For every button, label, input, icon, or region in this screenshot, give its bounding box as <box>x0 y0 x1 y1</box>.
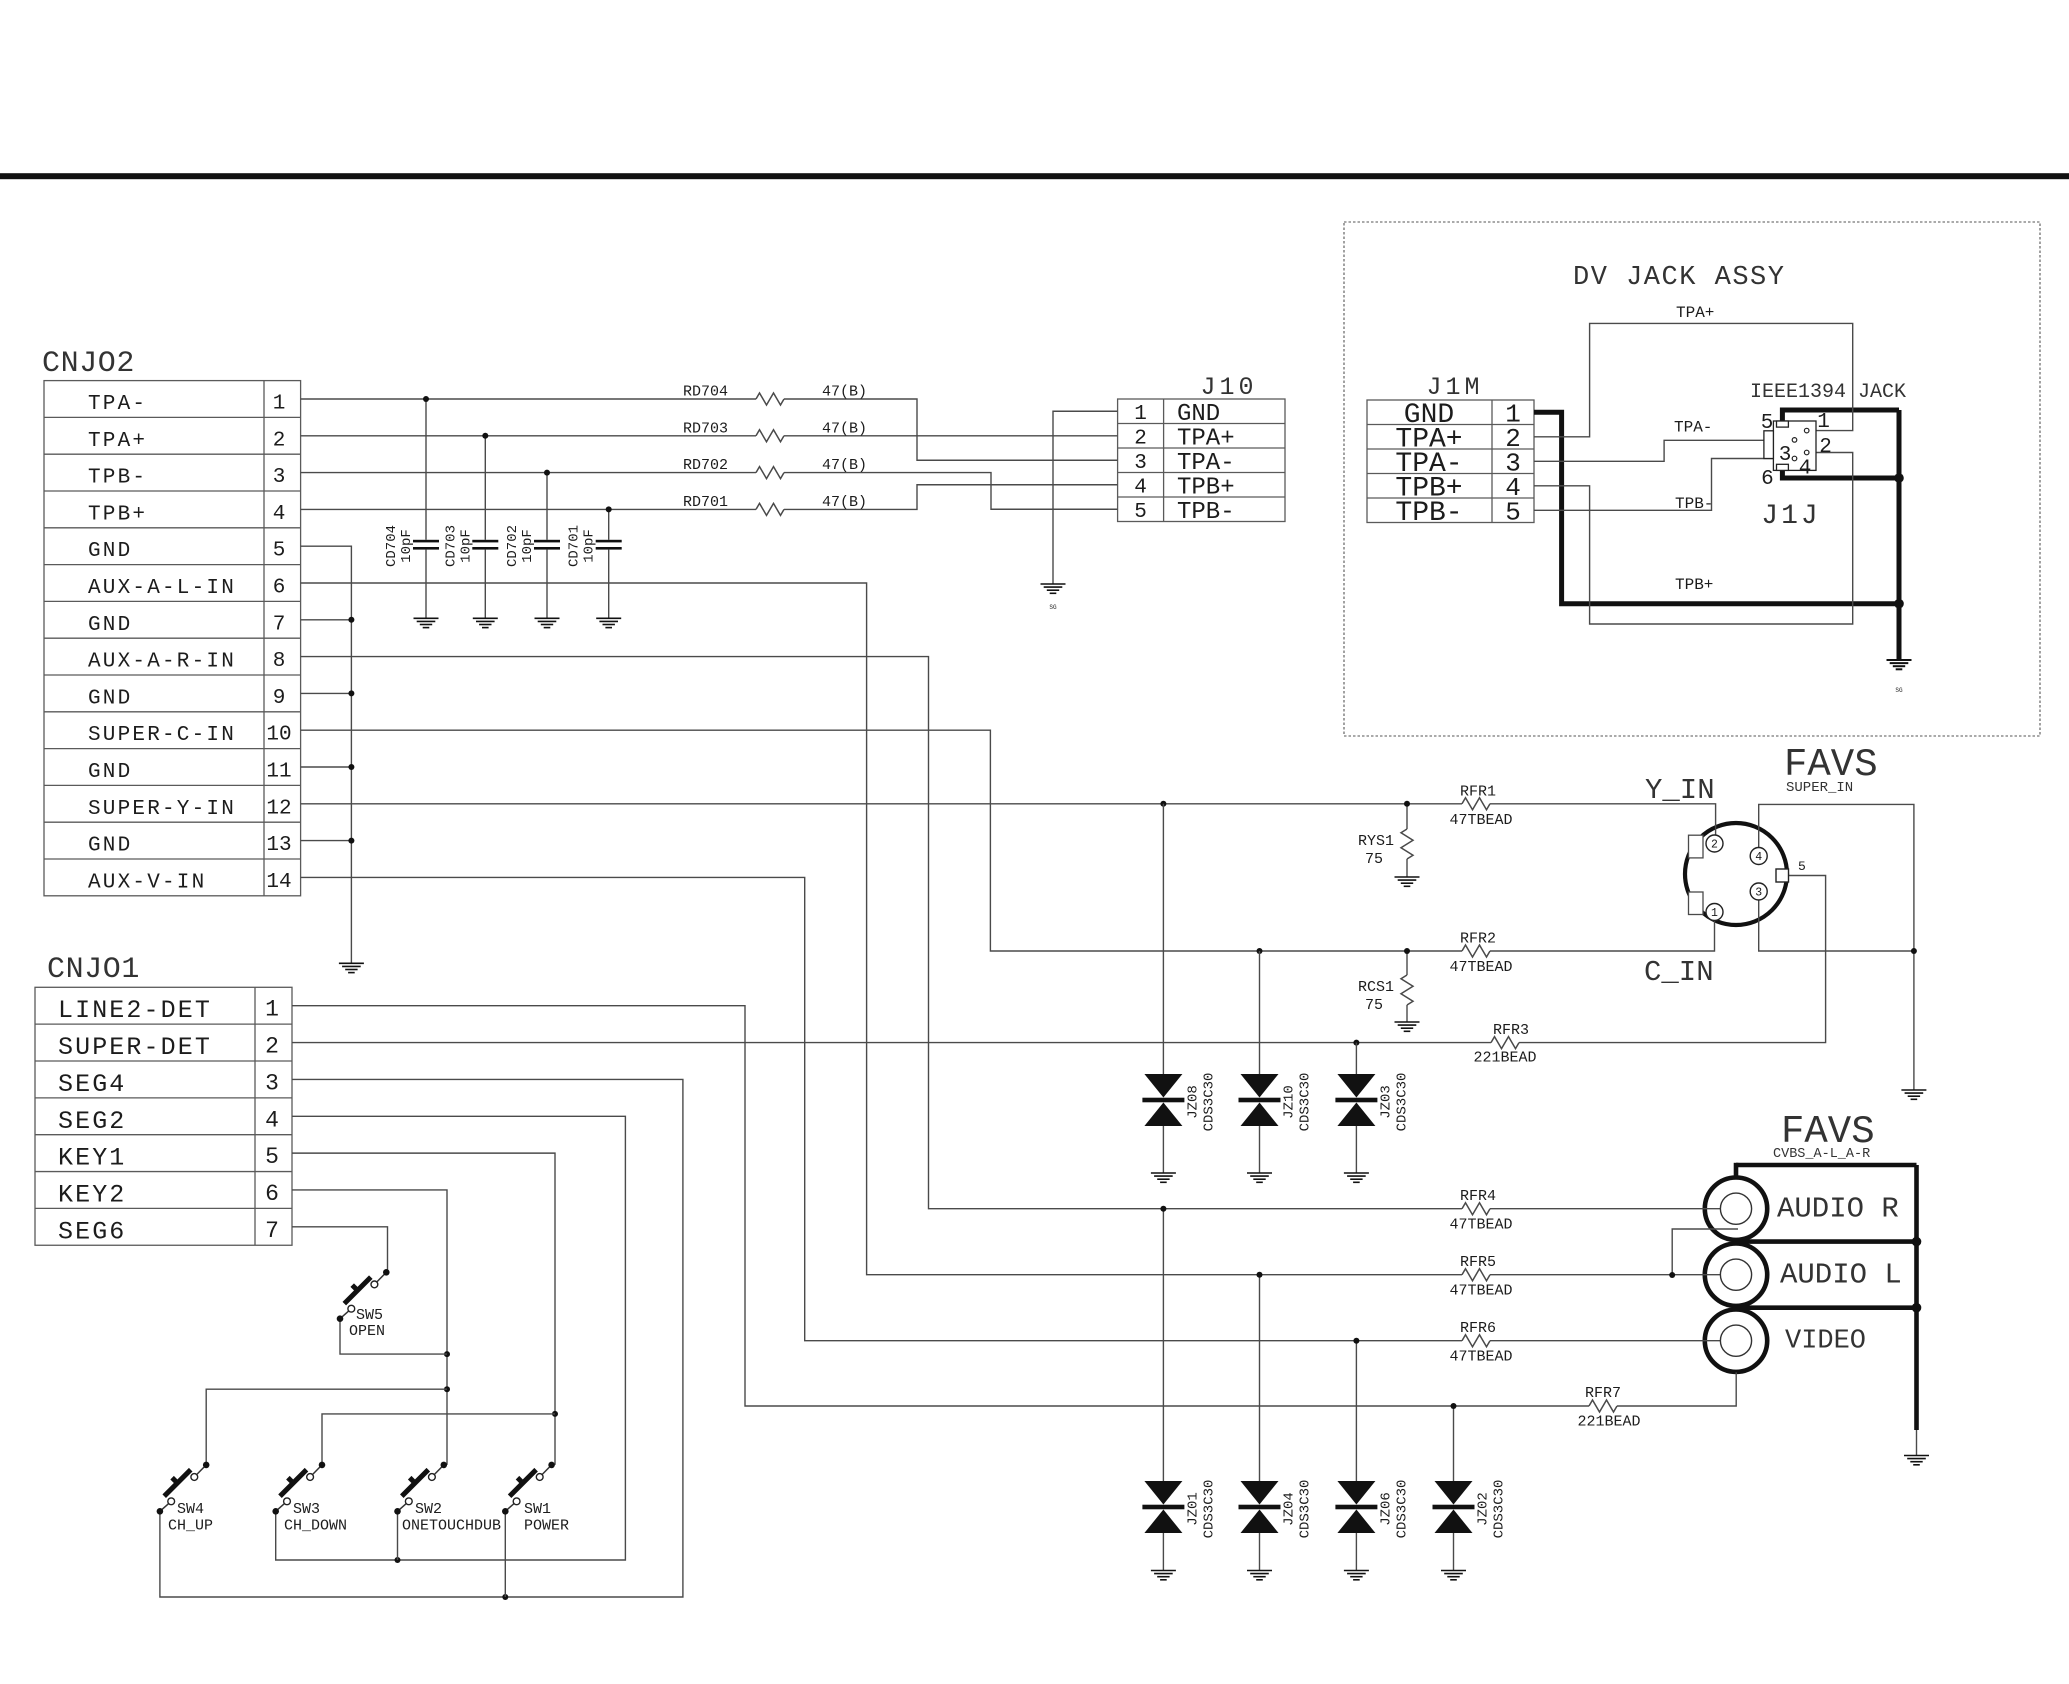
svg-text:4: 4 <box>1755 851 1762 864</box>
svg-text:CVBS_A-L_A-R: CVBS_A-L_A-R <box>1773 1147 1870 1162</box>
svg-text:SUPER-C-IN: SUPER-C-IN <box>88 724 236 747</box>
svg-text:GND: GND <box>1177 401 1220 428</box>
svg-text:J1M: J1M <box>1426 373 1483 402</box>
svg-text:CH_DOWN: CH_DOWN <box>284 1518 347 1535</box>
svg-text:13: 13 <box>266 834 291 857</box>
svg-text:TPB-: TPB- <box>88 467 147 490</box>
svg-text:TPB-: TPB- <box>1395 498 1462 529</box>
svg-text:VIDEO: VIDEO <box>1785 1327 1866 1357</box>
svg-text:AUX-V-IN: AUX-V-IN <box>88 871 206 894</box>
svg-text:1: 1 <box>273 393 286 416</box>
svg-text:RFR4: RFR4 <box>1460 1188 1496 1205</box>
svg-text:JZ10: JZ10 <box>1282 1085 1298 1119</box>
svg-text:TPA-: TPA- <box>1177 450 1235 477</box>
svg-text:KEY1: KEY1 <box>58 1144 126 1173</box>
svg-text:4: 4 <box>273 503 286 526</box>
svg-text:5: 5 <box>1505 497 1521 527</box>
svg-text:47(B): 47(B) <box>822 420 867 437</box>
svg-text:CD703: CD703 <box>443 525 459 567</box>
svg-text:RD704: RD704 <box>683 384 728 401</box>
svg-text:1: 1 <box>265 997 279 1023</box>
svg-text:5: 5 <box>1134 501 1147 524</box>
svg-text:RD701: RD701 <box>683 494 728 511</box>
svg-text:RYS1: RYS1 <box>1358 833 1394 850</box>
svg-text:CD702: CD702 <box>505 525 521 567</box>
svg-text:2: 2 <box>1134 428 1147 451</box>
svg-text:SUPER-DET: SUPER-DET <box>58 1033 212 1062</box>
svg-text:5: 5 <box>1761 412 1774 435</box>
svg-text:OPEN: OPEN <box>349 1323 385 1340</box>
svg-text:TPA+: TPA+ <box>1177 426 1235 453</box>
svg-text:47TBEAD: 47TBEAD <box>1449 1217 1512 1234</box>
svg-text:SEG4: SEG4 <box>58 1070 126 1099</box>
svg-text:Y_IN: Y_IN <box>1645 774 1715 807</box>
svg-text:IEEE1394 JACK: IEEE1394 JACK <box>1750 381 1906 404</box>
svg-text:SUPER-Y-IN: SUPER-Y-IN <box>88 798 236 821</box>
svg-text:11: 11 <box>266 761 291 784</box>
svg-text:5: 5 <box>1798 859 1806 874</box>
svg-text:GND: GND <box>88 835 132 858</box>
svg-text:JZ03: JZ03 <box>1378 1085 1394 1119</box>
svg-text:SW5: SW5 <box>356 1307 383 1324</box>
svg-text:47(B): 47(B) <box>822 457 867 474</box>
svg-text:TPA+: TPA+ <box>1676 304 1714 322</box>
svg-text:CNJO1: CNJO1 <box>47 953 140 987</box>
svg-text:TPA-: TPA- <box>1674 419 1712 437</box>
svg-text:1: 1 <box>1817 411 1830 434</box>
svg-text:SEG6: SEG6 <box>58 1217 126 1246</box>
svg-text:GND: GND <box>88 540 132 563</box>
svg-text:POWER: POWER <box>524 1518 569 1535</box>
svg-text:AUDIO L: AUDIO L <box>1780 1259 1902 1292</box>
svg-text:CDS3C30: CDS3C30 <box>1492 1480 1508 1539</box>
svg-text:TPB-: TPB- <box>1177 499 1235 526</box>
svg-text:47(B): 47(B) <box>822 384 867 401</box>
svg-text:CDS3C30: CDS3C30 <box>1298 1073 1314 1132</box>
svg-text:SG: SG <box>1895 687 1903 694</box>
svg-text:2: 2 <box>1711 839 1718 852</box>
svg-text:10pF: 10pF <box>582 529 598 563</box>
svg-text:4: 4 <box>1134 477 1147 500</box>
svg-text:RD703: RD703 <box>683 420 728 437</box>
svg-text:3: 3 <box>1755 887 1762 900</box>
svg-text:SW1: SW1 <box>524 1501 551 1518</box>
svg-text:47TBEAD: 47TBEAD <box>1449 959 1512 976</box>
svg-text:47TBEAD: 47TBEAD <box>1449 1283 1512 1300</box>
svg-text:SEG2: SEG2 <box>58 1107 126 1136</box>
svg-text:221BEAD: 221BEAD <box>1577 1414 1640 1431</box>
svg-text:75: 75 <box>1365 997 1383 1014</box>
svg-text:6: 6 <box>1761 468 1774 491</box>
svg-text:3: 3 <box>265 1070 279 1096</box>
svg-text:75: 75 <box>1365 851 1383 868</box>
svg-text:6: 6 <box>265 1181 279 1207</box>
svg-text:RFR6: RFR6 <box>1460 1320 1496 1337</box>
svg-text:JZ04: JZ04 <box>1282 1492 1298 1526</box>
svg-text:RFR3: RFR3 <box>1493 1022 1529 1039</box>
svg-text:221BEAD: 221BEAD <box>1473 1050 1536 1067</box>
svg-text:SUPER_IN: SUPER_IN <box>1786 780 1853 796</box>
svg-text:6: 6 <box>273 577 286 600</box>
svg-text:JZ08: JZ08 <box>1185 1085 1201 1119</box>
svg-text:RFR1: RFR1 <box>1460 783 1496 800</box>
svg-text:7: 7 <box>265 1218 279 1244</box>
svg-text:CDS3C30: CDS3C30 <box>1394 1480 1410 1539</box>
svg-text:RFR2: RFR2 <box>1460 931 1496 948</box>
svg-text:4: 4 <box>265 1107 279 1133</box>
svg-text:14: 14 <box>266 871 291 894</box>
svg-text:7: 7 <box>273 613 286 636</box>
svg-text:GND: GND <box>88 761 132 784</box>
svg-text:TPB+: TPB+ <box>1675 576 1713 594</box>
svg-text:TPA-: TPA- <box>88 393 147 416</box>
svg-text:RFR5: RFR5 <box>1460 1254 1496 1271</box>
svg-text:3: 3 <box>1134 452 1147 475</box>
svg-text:AUX-A-L-IN: AUX-A-L-IN <box>88 577 236 600</box>
svg-text:TPA+: TPA+ <box>88 430 147 453</box>
svg-text:12: 12 <box>266 797 291 820</box>
svg-text:RCS1: RCS1 <box>1358 979 1394 996</box>
svg-text:1: 1 <box>1134 403 1147 426</box>
svg-text:SW2: SW2 <box>415 1501 442 1518</box>
svg-text:8: 8 <box>273 650 286 673</box>
svg-text:GND: GND <box>88 687 132 710</box>
svg-text:CD701: CD701 <box>567 525 583 567</box>
svg-text:4: 4 <box>1799 458 1812 481</box>
svg-text:2: 2 <box>273 429 286 452</box>
svg-text:CDS3C30: CDS3C30 <box>1201 1073 1217 1132</box>
svg-text:SW3: SW3 <box>293 1501 320 1518</box>
svg-text:KEY2: KEY2 <box>58 1180 126 1209</box>
svg-text:10pF: 10pF <box>458 529 474 563</box>
svg-text:TPB+: TPB+ <box>1177 475 1235 502</box>
svg-text:GND: GND <box>88 614 132 637</box>
svg-text:SW4: SW4 <box>177 1501 204 1518</box>
svg-text:2: 2 <box>1819 436 1832 459</box>
svg-text:TPB-: TPB- <box>1675 495 1713 513</box>
svg-text:J10: J10 <box>1200 373 1257 402</box>
svg-text:9: 9 <box>273 687 286 710</box>
svg-text:RD702: RD702 <box>683 457 728 474</box>
svg-text:10pF: 10pF <box>399 529 415 563</box>
svg-text:CDS3C30: CDS3C30 <box>1394 1073 1410 1132</box>
svg-text:3: 3 <box>1779 444 1792 467</box>
svg-text:TPB+: TPB+ <box>88 503 147 526</box>
svg-text:10: 10 <box>266 724 291 747</box>
svg-text:CNJO2: CNJO2 <box>42 347 135 381</box>
svg-text:47TBEAD: 47TBEAD <box>1449 812 1512 829</box>
svg-text:CH_UP: CH_UP <box>168 1518 213 1535</box>
svg-text:5: 5 <box>273 540 286 563</box>
svg-text:SG: SG <box>1049 604 1057 611</box>
svg-text:C_IN: C_IN <box>1644 956 1714 989</box>
svg-text:CDS3C30: CDS3C30 <box>1298 1480 1314 1539</box>
svg-text:LINE2-DET: LINE2-DET <box>58 996 212 1025</box>
svg-text:ONETOUCHDUB: ONETOUCHDUB <box>402 1518 501 1535</box>
svg-text:2: 2 <box>265 1034 279 1060</box>
svg-text:47TBEAD: 47TBEAD <box>1449 1349 1512 1366</box>
svg-text:CDS3C30: CDS3C30 <box>1201 1480 1217 1539</box>
svg-text:10pF: 10pF <box>520 529 536 563</box>
svg-text:RFR7: RFR7 <box>1585 1385 1621 1402</box>
svg-text:JZ01: JZ01 <box>1185 1492 1201 1526</box>
svg-text:5: 5 <box>265 1144 279 1170</box>
svg-text:AUDIO R: AUDIO R <box>1777 1193 1899 1226</box>
svg-text:JZ06: JZ06 <box>1378 1492 1394 1526</box>
svg-text:3: 3 <box>273 466 286 489</box>
svg-text:JZ02: JZ02 <box>1476 1492 1492 1526</box>
svg-text:J1J: J1J <box>1761 501 1820 532</box>
svg-text:1: 1 <box>1711 907 1718 920</box>
svg-text:CD704: CD704 <box>384 525 400 567</box>
svg-text:AUX-A-R-IN: AUX-A-R-IN <box>88 651 236 674</box>
svg-text:DV JACK ASSY: DV JACK ASSY <box>1573 263 1785 293</box>
svg-text:47(B): 47(B) <box>822 494 867 511</box>
